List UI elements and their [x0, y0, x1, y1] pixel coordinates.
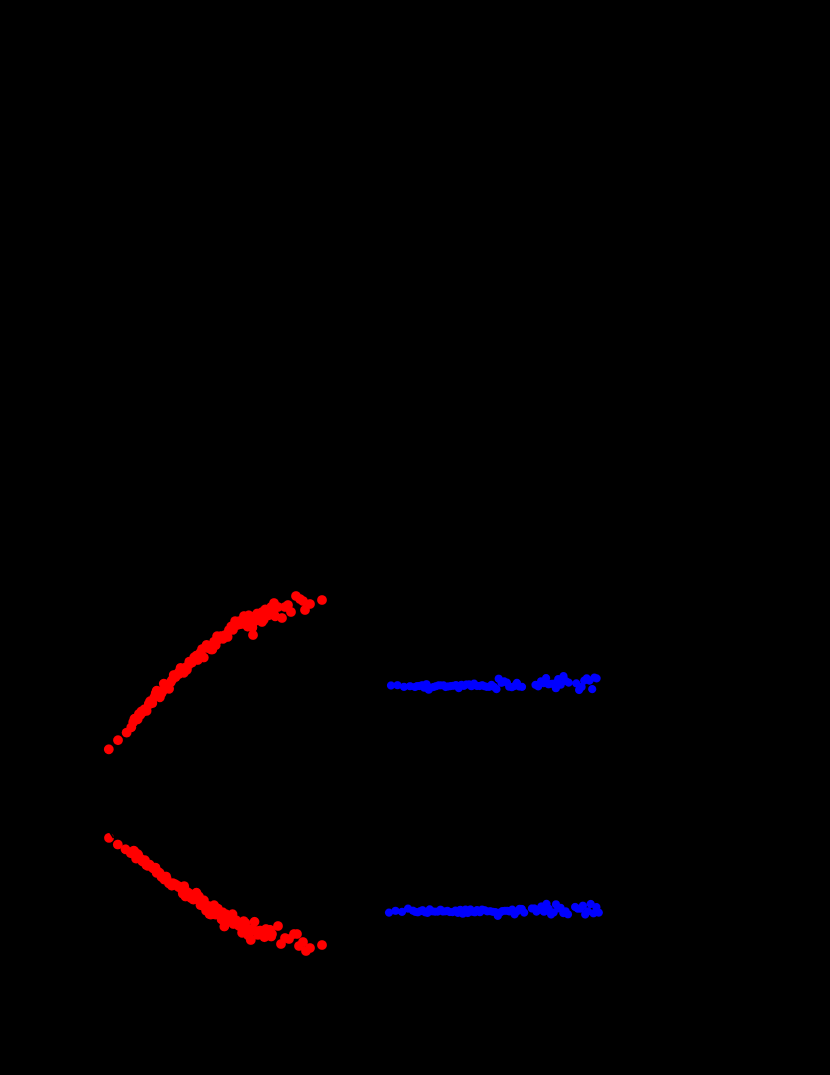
- black fit-line slash over first lower red dot: [110, 833, 113, 838]
- blue scatter series: lower flat band: [385, 900, 603, 920]
- red scatter series: upper-left rising curve: [104, 591, 327, 754]
- blue scatter series: upper flat band: [387, 672, 601, 694]
- red scatter series: lower-left falling curve: [104, 833, 327, 956]
